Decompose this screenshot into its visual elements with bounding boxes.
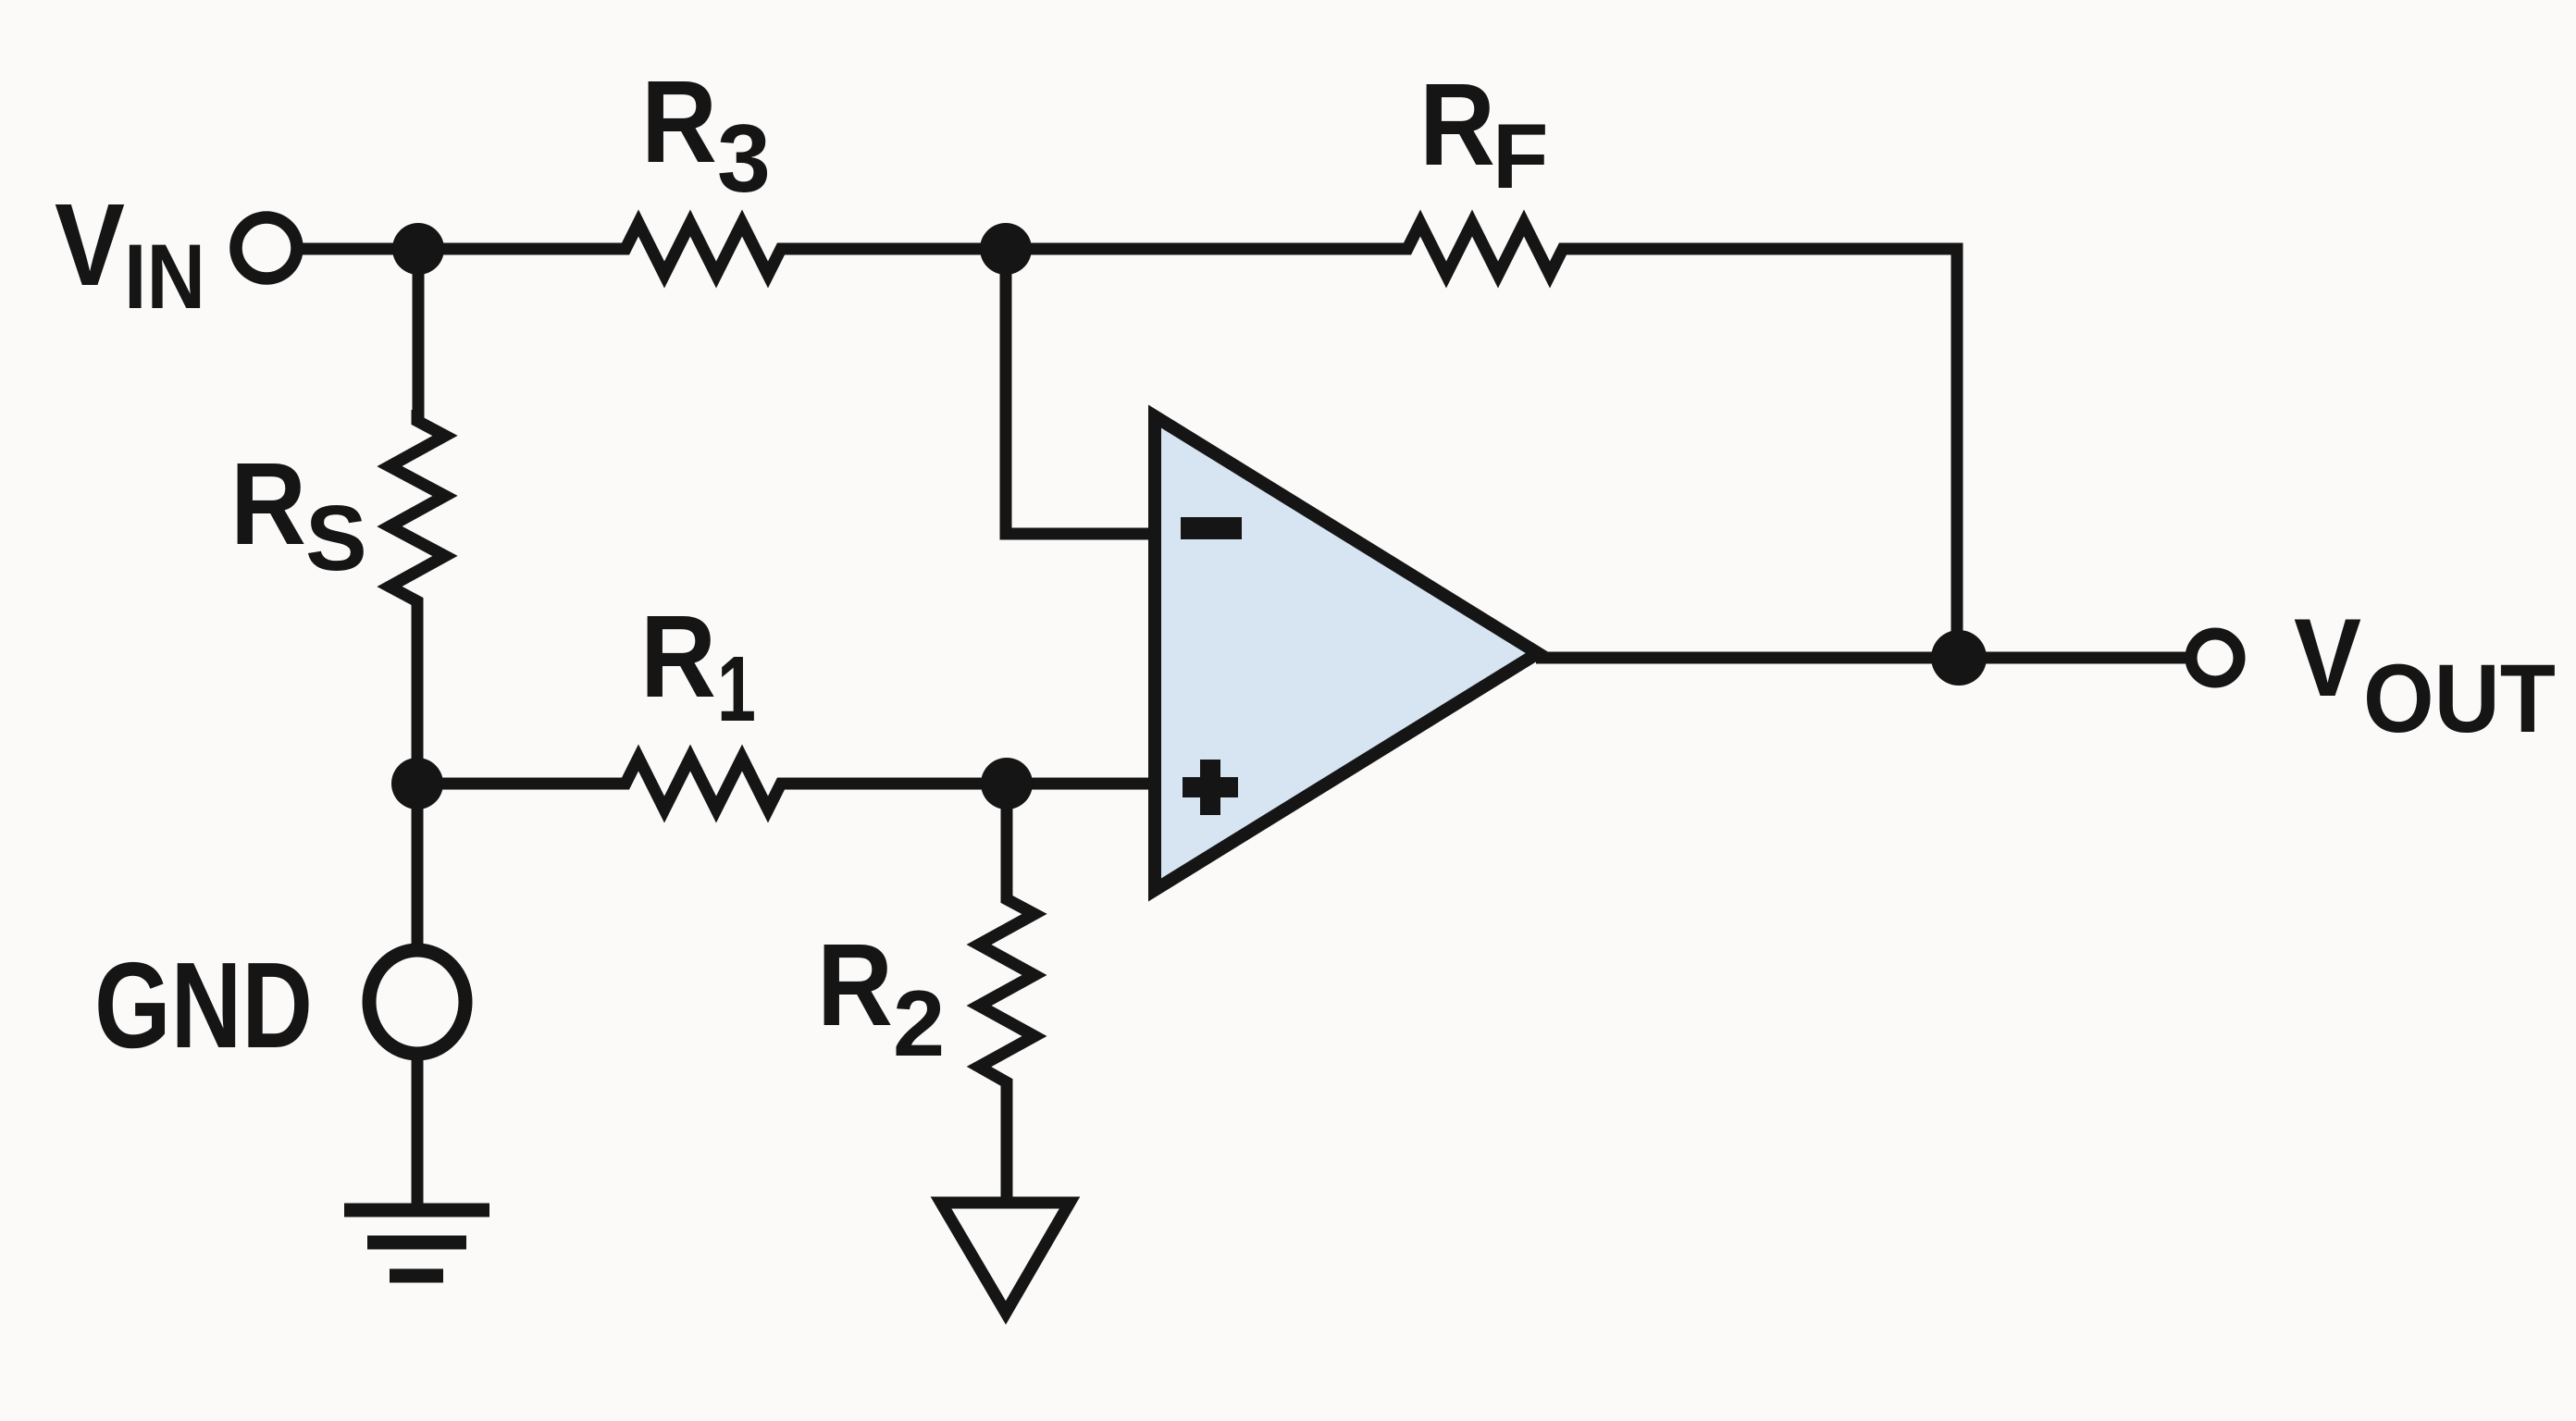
- svg-text:2: 2: [893, 972, 945, 1076]
- resistor R3: [614, 223, 792, 275]
- terminal VIN open circle: [236, 217, 297, 278]
- svg-text:S: S: [305, 487, 367, 590]
- resistor RF: [1396, 223, 1574, 275]
- resistor RS: [390, 410, 445, 612]
- terminal VOUT open circle: [2191, 634, 2239, 682]
- svg-text:V: V: [55, 179, 125, 310]
- op-amp plus sign: [1183, 760, 1238, 815]
- terminal GND open circle: [369, 950, 465, 1054]
- svg-text:IN: IN: [124, 225, 205, 327]
- svg-text:R: R: [641, 56, 717, 187]
- svg-text:3: 3: [717, 105, 771, 213]
- op-amp minus sign: [1181, 517, 1242, 539]
- svg-text:1: 1: [717, 637, 756, 741]
- wire node D down to R2: [1001, 784, 1013, 901]
- resistor R2: [979, 888, 1034, 1094]
- svg-text:R: R: [817, 920, 893, 1050]
- wire top rail VIN to R3: [298, 243, 627, 255]
- svg-text:R: R: [1419, 59, 1495, 190]
- wire op-amp output: [1536, 652, 2189, 664]
- ground earth symbol: [344, 1210, 489, 1276]
- wire GND circle to earth: [412, 1054, 424, 1210]
- label VOUT: [2294, 596, 2556, 753]
- node E (output junction): [1931, 630, 1987, 686]
- node C (RS / R1 / GND junction): [391, 758, 443, 809]
- op-amp U1: [1155, 416, 1538, 890]
- node A (VIN junction): [392, 223, 444, 275]
- wire RS bottom to plus-rail node: [412, 601, 424, 785]
- node D (non-inverting input junction): [981, 758, 1033, 809]
- svg-text:F: F: [1492, 105, 1548, 207]
- svg-text:OUT: OUT: [2363, 645, 2556, 753]
- label VIN: [55, 179, 205, 327]
- svg-text:R: R: [230, 439, 306, 569]
- ground triangle (under R2): [941, 1203, 1070, 1313]
- label RS: [230, 439, 367, 590]
- svg-text:GND: GND: [94, 937, 313, 1073]
- wire RF to feedback corner and down to output node: [1563, 249, 1957, 658]
- wire RS top (VIN node down): [413, 249, 425, 423]
- label R1: [640, 591, 756, 741]
- wire node B down to inverting input: [1006, 249, 1155, 534]
- label RF: [1419, 59, 1548, 207]
- wire R3 to RF: [781, 243, 1409, 255]
- node B (inverting input junction): [980, 223, 1032, 275]
- wire R2 bottom lead: [1001, 1082, 1013, 1207]
- wire R1 to plus input: [781, 778, 1155, 790]
- svg-text:R: R: [640, 591, 716, 722]
- label R3: [641, 56, 771, 213]
- svg-text:V: V: [2294, 596, 2361, 720]
- resistor R1: [614, 758, 792, 809]
- wire plus rail left: [417, 778, 627, 790]
- label R2: [817, 920, 945, 1076]
- wire GND branch down from node C: [412, 784, 424, 945]
